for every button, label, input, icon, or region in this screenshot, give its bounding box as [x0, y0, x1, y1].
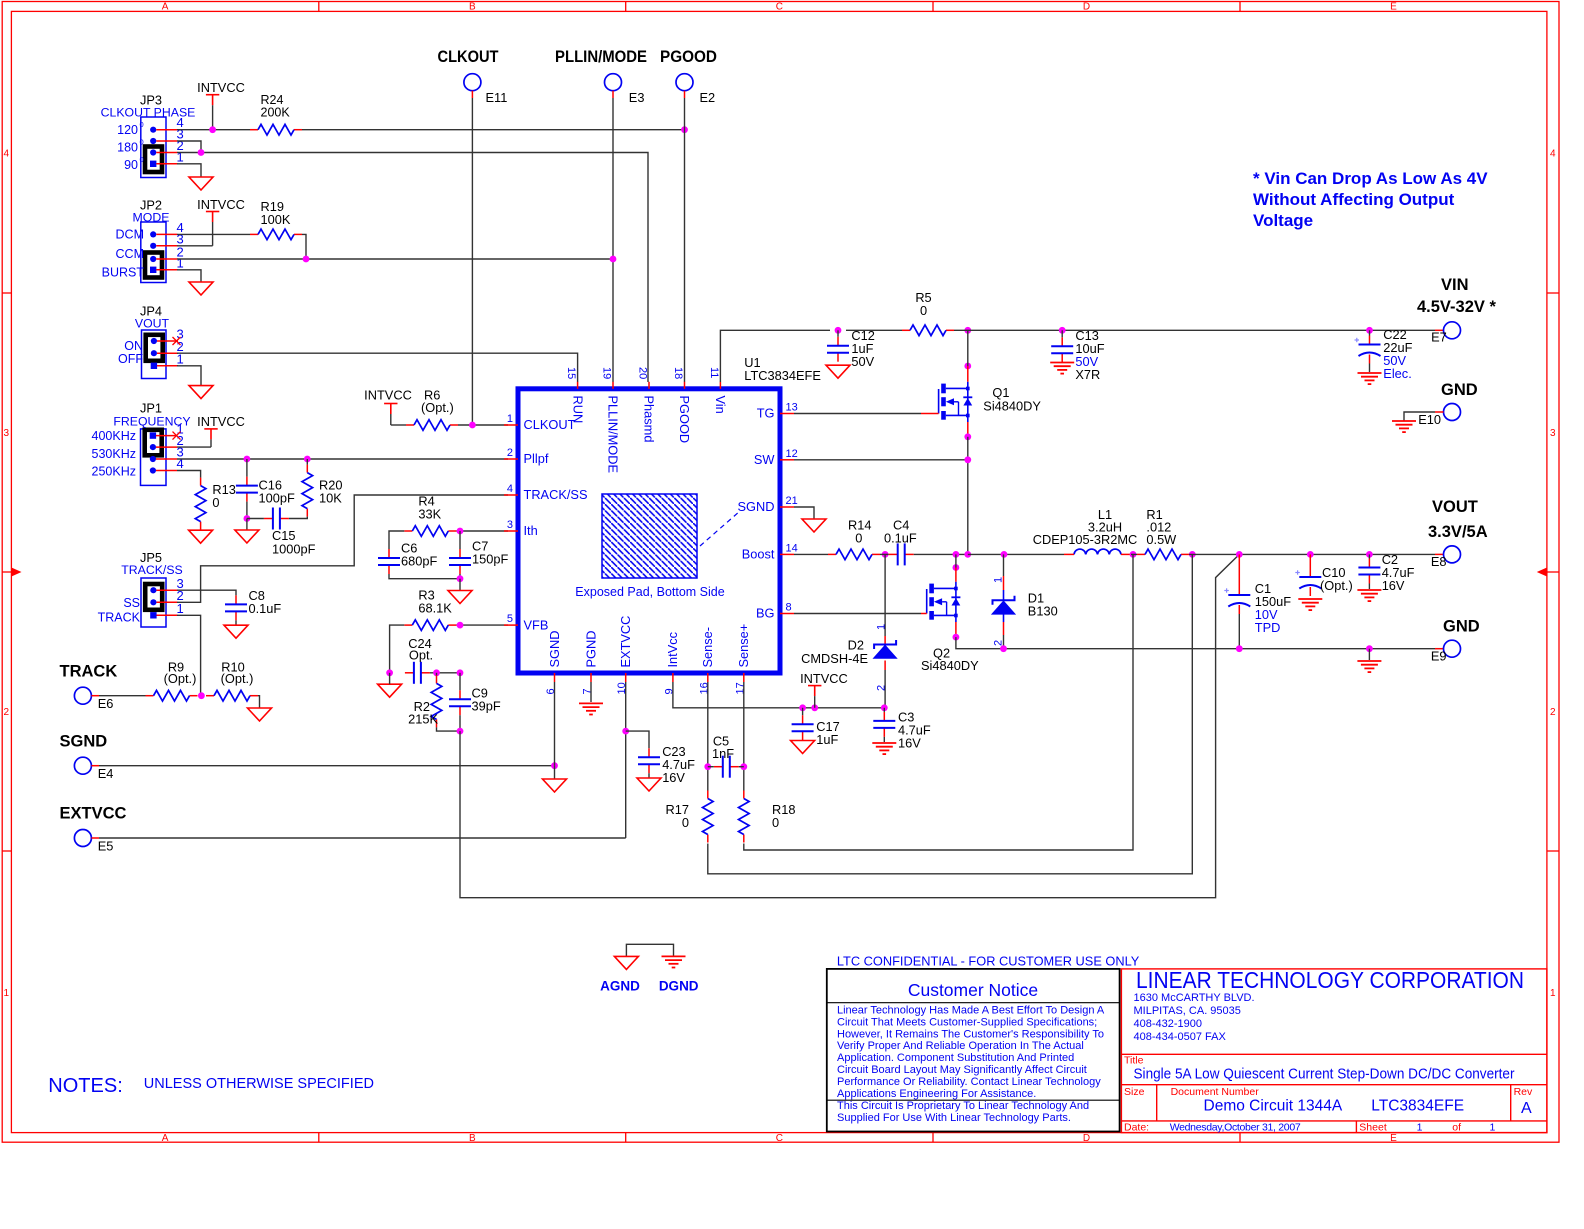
svg-text:E3: E3: [629, 90, 645, 105]
svg-text:1nF: 1nF: [712, 746, 734, 761]
svg-text:Date:: Date:: [1124, 1122, 1149, 1134]
svg-text:16V: 16V: [662, 770, 685, 785]
svg-text:3: 3: [1550, 428, 1556, 439]
svg-text:Si4840DY: Si4840DY: [921, 658, 979, 673]
svg-text:NOTES:: NOTES:: [48, 1075, 122, 1097]
svg-text:33K: 33K: [418, 507, 441, 522]
svg-text:2: 2: [507, 447, 513, 459]
svg-text:Boost: Boost: [742, 547, 775, 562]
svg-text:of: of: [1452, 1122, 1461, 1134]
svg-text:Linear Technology Has Made A B: Linear Technology Has Made A Best Effort…: [837, 1005, 1105, 1017]
svg-text:D: D: [1083, 2, 1090, 13]
svg-text:UNLESS OTHERWISE SPECIFIED: UNLESS OTHERWISE SPECIFIED: [144, 1076, 374, 1092]
svg-text:2: 2: [993, 640, 1005, 646]
svg-text:1: 1: [177, 601, 184, 616]
svg-text:Circuit Board Layout May Signi: Circuit Board Layout May Significantly A…: [837, 1064, 1087, 1076]
svg-text:SGND: SGND: [547, 631, 562, 668]
svg-text:408-432-1900: 408-432-1900: [1134, 1018, 1203, 1030]
svg-text:0: 0: [140, 155, 144, 164]
svg-text:E10: E10: [1418, 412, 1441, 427]
svg-text:A: A: [162, 2, 169, 13]
svg-text:BURST: BURST: [102, 266, 145, 280]
svg-text:GND: GND: [1441, 381, 1478, 399]
svg-text:TRACK: TRACK: [98, 611, 141, 625]
svg-text:SW: SW: [754, 452, 776, 467]
svg-text:408-434-0507 FAX: 408-434-0507 FAX: [1134, 1031, 1227, 1043]
svg-text:E: E: [1390, 2, 1397, 13]
svg-text:150pF: 150pF: [472, 552, 508, 567]
svg-text:CCM: CCM: [116, 247, 144, 261]
svg-text:VOUT: VOUT: [1432, 498, 1478, 516]
svg-text:E4: E4: [98, 766, 114, 781]
svg-text:3.3V/5A: 3.3V/5A: [1428, 523, 1488, 541]
svg-text:LINEAR TECHNOLOGY CORPORATION: LINEAR TECHNOLOGY CORPORATION: [1136, 967, 1524, 993]
svg-text:However, It Remains The Custom: However, It Remains The Customer's Respo…: [837, 1028, 1104, 1040]
svg-text:1: 1: [875, 624, 887, 630]
svg-text:CLKOUT: CLKOUT: [524, 417, 576, 432]
svg-text:LTC CONFIDENTIAL - FOR CUSTOME: LTC CONFIDENTIAL - FOR CUSTOMER USE ONLY: [837, 954, 1140, 969]
svg-text:SGND: SGND: [738, 499, 775, 514]
svg-text:1: 1: [177, 255, 184, 270]
svg-text:Application. Component Substit: Application. Component Substitution And …: [837, 1052, 1074, 1064]
svg-text:PGOOD: PGOOD: [677, 396, 692, 444]
svg-text:DCM: DCM: [116, 228, 144, 242]
svg-text:DGND: DGND: [659, 979, 699, 994]
svg-text:3: 3: [507, 519, 513, 531]
svg-text:BG: BG: [756, 606, 775, 621]
svg-text:Elec.: Elec.: [1383, 366, 1411, 381]
svg-text:(Opt.): (Opt.): [221, 671, 254, 686]
svg-text:90: 90: [124, 158, 138, 172]
svg-text:C: C: [776, 1133, 783, 1144]
svg-text:Single 5A Low Quiescent Curren: Single 5A Low Quiescent Current Step-Dow…: [1134, 1066, 1515, 1083]
svg-text:Size: Size: [1124, 1086, 1145, 1098]
svg-text:EXTVCC: EXTVCC: [60, 805, 127, 823]
svg-text:AGND: AGND: [600, 979, 640, 994]
svg-text:CMDSH-4E: CMDSH-4E: [801, 651, 868, 666]
svg-text:JP1: JP1: [140, 401, 162, 416]
svg-text:E6: E6: [98, 696, 114, 711]
svg-text:39pF: 39pF: [472, 699, 501, 714]
svg-text:0.1uF: 0.1uF: [249, 601, 282, 616]
svg-text:1: 1: [4, 988, 10, 999]
svg-text:1000pF: 1000pF: [272, 542, 316, 557]
svg-text:180: 180: [117, 141, 138, 155]
svg-text:OFF: OFF: [118, 352, 143, 366]
svg-text:VOUT: VOUT: [135, 316, 170, 330]
svg-text:Ith: Ith: [524, 523, 538, 538]
svg-text:This Circuit Is Proprietary To: This Circuit Is Proprietary To Linear Te…: [837, 1100, 1089, 1112]
svg-text:50V: 50V: [851, 354, 874, 369]
svg-text:4: 4: [507, 483, 513, 495]
svg-text:3: 3: [4, 428, 10, 439]
svg-text:16V: 16V: [898, 736, 921, 751]
svg-text:INTVCC: INTVCC: [197, 197, 245, 212]
svg-text:Verify Proper And Reliable Ope: Verify Proper And Reliable Operation In …: [837, 1040, 1084, 1052]
svg-text:* Vin Can Drop As Low As 4V: * Vin Can Drop As Low As 4V: [1253, 169, 1488, 188]
svg-text:E5: E5: [98, 839, 114, 854]
svg-text:INTVCC: INTVCC: [197, 80, 245, 95]
svg-text:19: 19: [601, 367, 613, 379]
svg-text:A: A: [162, 1133, 169, 1144]
svg-text:0: 0: [140, 120, 144, 129]
svg-text:B130: B130: [1028, 604, 1058, 619]
svg-text:SGND: SGND: [60, 733, 108, 751]
svg-text:21: 21: [786, 495, 798, 507]
svg-text:20: 20: [637, 367, 649, 379]
svg-text:0: 0: [212, 495, 219, 510]
svg-text:11: 11: [708, 367, 720, 378]
svg-text:Performance Or Reliability. Co: Performance Or Reliability. Contact Line…: [837, 1076, 1101, 1088]
svg-text:100pF: 100pF: [259, 491, 295, 506]
svg-text:E11: E11: [486, 90, 508, 105]
svg-text:2: 2: [4, 707, 10, 718]
svg-text:RUN: RUN: [570, 396, 585, 424]
svg-text:(Opt.): (Opt.): [164, 671, 197, 686]
svg-text:Customer Notice: Customer Notice: [908, 980, 1038, 1000]
svg-text:Exposed Pad, Bottom Side: Exposed Pad, Bottom Side: [575, 585, 724, 599]
svg-text:(Opt.): (Opt.): [1320, 578, 1353, 593]
svg-text:MODE: MODE: [133, 211, 170, 225]
svg-text:680pF: 680pF: [401, 554, 437, 569]
svg-text:Without Affecting Output: Without Affecting Output: [1253, 190, 1455, 209]
svg-text:12: 12: [786, 448, 798, 460]
svg-text:Phasmd: Phasmd: [642, 396, 657, 443]
svg-text:E2: E2: [700, 90, 716, 105]
svg-text:16V: 16V: [1382, 578, 1405, 593]
svg-text:Applications Engineering For A: Applications Engineering For Assistance.: [837, 1088, 1036, 1100]
svg-text:B: B: [469, 1133, 476, 1144]
svg-text:Sense-: Sense-: [700, 627, 715, 668]
svg-text:2: 2: [1550, 707, 1556, 718]
svg-text:1: 1: [1490, 1122, 1496, 1134]
svg-text:120: 120: [117, 123, 138, 137]
svg-text:Sheet: Sheet: [1359, 1122, 1387, 1134]
svg-text:INTVCC: INTVCC: [197, 414, 245, 429]
svg-text:4.5V-32V *: 4.5V-32V *: [1417, 298, 1496, 316]
svg-text:INTVCC: INTVCC: [364, 388, 412, 403]
svg-text:1: 1: [177, 149, 184, 164]
svg-text:E9: E9: [1431, 649, 1447, 664]
svg-text:E8: E8: [1431, 554, 1447, 569]
svg-text:GND: GND: [1443, 618, 1480, 636]
svg-text:0.5W: 0.5W: [1146, 532, 1177, 547]
svg-text:LTC3834EFE: LTC3834EFE: [1371, 1098, 1464, 1115]
svg-text:IntVcc: IntVcc: [665, 631, 680, 667]
svg-text:2: 2: [875, 685, 887, 691]
svg-text:1630 McCARTHY BLVD.: 1630 McCARTHY BLVD.: [1134, 992, 1255, 1004]
svg-text:A: A: [1521, 1100, 1532, 1117]
svg-text:Pllpf: Pllpf: [524, 451, 549, 466]
svg-text:LTC3834EFE: LTC3834EFE: [744, 368, 821, 383]
svg-text:Opt.: Opt.: [409, 648, 433, 663]
svg-text:530KHz: 530KHz: [92, 447, 136, 461]
svg-text:5: 5: [507, 613, 513, 625]
svg-text:C: C: [776, 2, 783, 13]
svg-text:CLKOUT: CLKOUT: [438, 48, 499, 66]
svg-text:VFB: VFB: [524, 617, 549, 632]
svg-text:PLLIN/MODE: PLLIN/MODE: [555, 48, 647, 66]
svg-text:1: 1: [507, 413, 513, 425]
svg-text:TRACK: TRACK: [60, 663, 118, 681]
svg-text:13: 13: [786, 402, 798, 414]
svg-text:Supplied For Use With Linear T: Supplied For Use With Linear Technology …: [837, 1112, 1071, 1124]
svg-text:MILPITAS, CA. 95035: MILPITAS, CA. 95035: [1134, 1005, 1241, 1017]
svg-text:14: 14: [786, 542, 798, 554]
svg-text:1: 1: [1417, 1122, 1423, 1134]
svg-text:PGND: PGND: [583, 631, 598, 668]
svg-text:Sense+: Sense+: [736, 624, 751, 668]
svg-text:18: 18: [672, 367, 684, 379]
svg-text:Voltage: Voltage: [1253, 211, 1313, 230]
svg-text:1: 1: [1550, 988, 1556, 999]
svg-text:Circuit That Meets Customer-Su: Circuit That Meets Customer-Supplied Spe…: [837, 1016, 1097, 1028]
svg-text:SS: SS: [123, 596, 140, 610]
svg-text:200K: 200K: [261, 106, 291, 120]
svg-text:0: 0: [772, 815, 779, 830]
svg-text:15: 15: [565, 367, 577, 379]
svg-text:1: 1: [993, 577, 1005, 583]
svg-text:215K: 215K: [408, 712, 438, 727]
svg-text:100K: 100K: [261, 212, 291, 227]
svg-text:10K: 10K: [319, 491, 342, 506]
svg-text:TRACK/SS: TRACK/SS: [524, 487, 588, 502]
svg-text:E7: E7: [1431, 330, 1447, 345]
svg-text:CDEP105-3R2MC: CDEP105-3R2MC: [1033, 532, 1138, 547]
svg-text:TG: TG: [757, 406, 775, 421]
svg-text:Vin: Vin: [713, 396, 728, 414]
svg-text:(Opt.): (Opt.): [421, 400, 454, 415]
svg-text:X7R: X7R: [1075, 367, 1100, 382]
svg-text:0: 0: [140, 138, 144, 147]
svg-text:4: 4: [1550, 149, 1556, 160]
svg-text:1uF: 1uF: [816, 732, 838, 747]
svg-text:0: 0: [920, 303, 927, 318]
svg-text:PGOOD: PGOOD: [660, 48, 717, 66]
svg-text:EXTVCC: EXTVCC: [618, 616, 633, 668]
svg-text:Demo Circuit 1344A: Demo Circuit 1344A: [1204, 1098, 1343, 1115]
svg-text:0: 0: [682, 815, 689, 830]
svg-text:8: 8: [786, 602, 792, 614]
svg-text:400KHz: 400KHz: [92, 429, 136, 443]
svg-text:0: 0: [855, 531, 862, 546]
svg-text:VIN: VIN: [1441, 276, 1469, 294]
svg-text:68.1K: 68.1K: [418, 601, 452, 616]
svg-text:4: 4: [4, 149, 10, 160]
svg-text:INTVCC: INTVCC: [800, 671, 848, 686]
svg-text:ON: ON: [124, 339, 143, 353]
svg-text:PLLIN/MODE: PLLIN/MODE: [606, 396, 621, 474]
svg-text:B: B: [469, 2, 476, 13]
svg-text:Document Number: Document Number: [1171, 1086, 1260, 1098]
svg-text:Rev: Rev: [1514, 1086, 1533, 1098]
svg-text:E: E: [1390, 1133, 1397, 1144]
svg-text:TPD: TPD: [1255, 620, 1281, 635]
svg-text:TRACK/SS: TRACK/SS: [121, 563, 183, 577]
svg-text:Si4840DY: Si4840DY: [983, 399, 1041, 414]
svg-text:D: D: [1083, 1133, 1090, 1144]
svg-text:0.1uF: 0.1uF: [884, 531, 917, 546]
svg-text:Wednesday,October 31, 2007: Wednesday,October 31, 2007: [1170, 1122, 1301, 1134]
svg-text:250KHz: 250KHz: [92, 464, 136, 478]
